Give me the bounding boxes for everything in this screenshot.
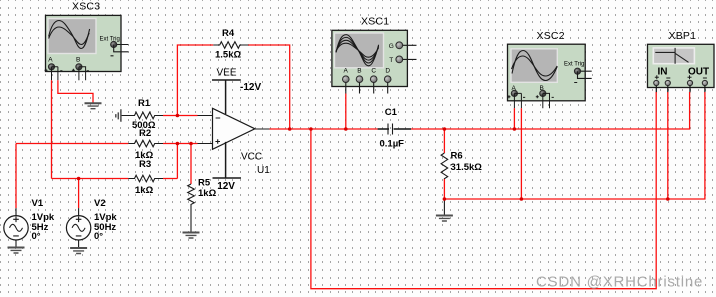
wire bottom rail to XBP1 IN plus	[311, 92, 656, 289]
svg-text:G: G	[389, 43, 394, 50]
svg-text:1.5kΩ: 1.5kΩ	[215, 50, 241, 61]
wire R2 input line	[16, 143, 198, 145]
junction node output-R4	[288, 127, 292, 131]
svg-text:A: A	[344, 68, 349, 75]
VEE supply -12V	[212, 68, 261, 115]
resistor R3	[128, 159, 163, 196]
wire R6 bottom to ground	[443, 199, 445, 216]
label XSC3	[72, 1, 100, 13]
wire ground line to XBP1 OUT minus	[444, 92, 705, 199]
svg-text:T: T	[389, 57, 393, 64]
label XSC1	[361, 16, 389, 28]
junction node gnd-INminus	[666, 197, 670, 201]
svg-text:0°: 0°	[94, 231, 103, 242]
svg-text:XSC2: XSC2	[537, 30, 565, 42]
junction node output-R6	[443, 127, 447, 131]
svg-text:R4: R4	[222, 28, 235, 39]
svg-text:31.5kΩ: 31.5kΩ	[451, 162, 483, 173]
resistor R1	[121, 98, 163, 131]
watermark CSDN	[536, 274, 703, 291]
wire V2 riser	[78, 179, 80, 209]
svg-text:VCC: VCC	[241, 152, 262, 163]
wire output line to XBP1 OUT plus	[270, 92, 690, 129]
ground rotated at R1 input	[116, 109, 121, 122]
wire XSC2 channel A plus drop	[513, 108, 515, 129]
svg-text:VEE: VEE	[217, 68, 237, 79]
wire XSC3 channel A plus drop	[51, 80, 53, 178]
wire R3 to R2 riser	[176, 144, 178, 179]
junction node gnd-XSC2Aminus	[520, 197, 524, 201]
wire XSC2 channel A minus drop	[520, 108, 522, 199]
VCC supply 12V	[213, 142, 263, 192]
svg-text:C: C	[371, 68, 376, 75]
svg-text:B: B	[76, 57, 80, 64]
resistor R6	[441, 151, 482, 180]
junction node gnd-R6	[443, 197, 447, 201]
svg-text:XSC1: XSC1	[361, 16, 389, 28]
label XSC2	[537, 30, 565, 42]
svg-text:0.1µF: 0.1µF	[380, 139, 405, 150]
svg-text:0°: 0°	[32, 231, 41, 242]
wire XSC1 channel A drop	[345, 94, 347, 130]
capacitor C1	[378, 107, 411, 150]
junction node V2-R3	[77, 177, 81, 181]
ground under R5	[183, 233, 200, 239]
wire R4 feedback loop	[177, 45, 289, 129]
junction node output-rail	[309, 127, 313, 131]
label XBP1	[669, 30, 697, 42]
svg-text:1kΩ: 1kΩ	[135, 185, 154, 196]
op-amp U1	[198, 108, 271, 176]
resistor R2	[128, 128, 163, 161]
oscilloscope XSC3	[45, 15, 129, 80]
ground under XSC3 A minus	[85, 103, 102, 109]
svg-text:Ext Trig: Ext Trig	[100, 37, 120, 43]
svg-text:B: B	[357, 68, 361, 75]
wire XBP1 IN minus drop	[667, 92, 669, 199]
bode plotter XBP1	[648, 44, 715, 92]
svg-text:U1: U1	[257, 165, 270, 176]
wire R6 top	[443, 129, 445, 153]
wire R3 line	[52, 178, 178, 180]
junction node R2-R3	[176, 142, 180, 146]
svg-text:R5: R5	[198, 178, 211, 189]
svg-text:CSDN @XRHChristine: CSDN @XRHChristine	[536, 274, 703, 291]
svg-text:OUT: OUT	[688, 67, 709, 78]
wire XSC3 channel A minus to ground	[58, 80, 93, 103]
wire V1 riser	[15, 144, 17, 209]
svg-text:IN: IN	[658, 67, 668, 78]
svg-text:V1: V1	[32, 198, 44, 209]
svg-text:R3: R3	[139, 159, 151, 170]
svg-text:Ext Trig: Ext Trig	[564, 62, 584, 68]
junction node output-XSC2A	[513, 127, 517, 131]
svg-text:A: A	[48, 57, 53, 64]
ground under R6	[436, 216, 453, 222]
svg-text:12V: 12V	[217, 181, 235, 192]
svg-text:R1: R1	[138, 98, 151, 109]
svg-text:-12V: -12V	[240, 82, 261, 93]
svg-text:V2: V2	[94, 198, 106, 209]
svg-text:XBP1: XBP1	[669, 30, 697, 42]
svg-text:R6: R6	[451, 151, 463, 162]
wire R5 riser	[190, 144, 192, 185]
AC source V2	[66, 198, 117, 248]
ground under V1	[8, 248, 25, 254]
resistor R5	[188, 178, 217, 233]
svg-text:R2: R2	[139, 128, 151, 139]
svg-text:D: D	[385, 68, 390, 75]
svg-text:C1: C1	[385, 107, 398, 118]
junction node R1-R4	[176, 114, 180, 118]
svg-text:XSC3: XSC3	[72, 1, 100, 13]
junction node R2-R5	[189, 142, 193, 146]
ground under V2	[70, 248, 87, 254]
oscilloscope XSC2	[508, 44, 592, 108]
wire R1 to op-amp minus	[163, 115, 198, 117]
svg-text:1kΩ: 1kΩ	[198, 188, 217, 199]
resistor R4	[213, 28, 248, 61]
AC source V1	[4, 198, 55, 248]
junction node output-XSC1A	[344, 127, 348, 131]
oscilloscope XSC1	[332, 30, 417, 93]
